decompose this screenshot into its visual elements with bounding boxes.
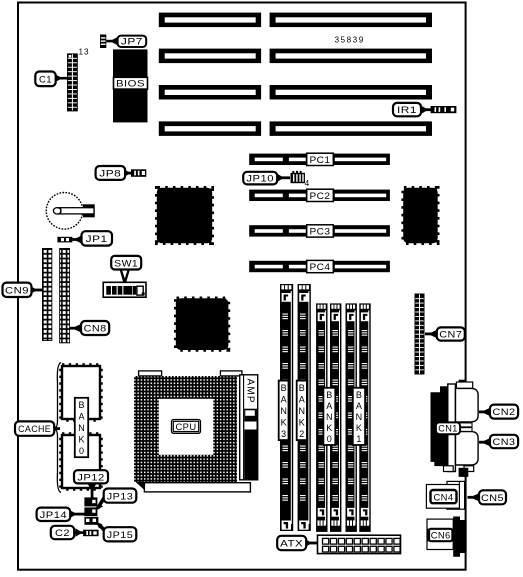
connector CN8 strip <box>59 248 70 343</box>
connector CN9 strip <box>42 248 52 341</box>
spacer tabs between CN2 and CN3 <box>456 423 473 432</box>
label IR1 <box>393 103 432 116</box>
label BIOS <box>114 77 148 89</box>
CN1 bottom tabs <box>444 466 474 477</box>
svg-text:AMP: AMP <box>245 379 256 404</box>
ISA slot 1 left segment <box>159 13 261 28</box>
label CACHE <box>15 421 60 435</box>
svg-text:CN3: CN3 <box>493 437 516 448</box>
label PC2 <box>307 189 334 202</box>
svg-text:CPU: CPU <box>176 422 197 433</box>
svg-text:BIOS: BIOS <box>116 79 145 90</box>
label CN9 <box>3 283 43 297</box>
label CN3 <box>479 435 518 448</box>
svg-text:BANK3: BANK3 <box>280 383 287 439</box>
svg-text:IR1: IR1 <box>397 105 417 116</box>
connector CN2 (port) <box>456 388 479 422</box>
label BANK1 (vertical) <box>353 388 365 445</box>
label BANK2 (vertical) <box>297 381 307 441</box>
svg-text:4: 4 <box>305 179 310 188</box>
SIMM socket BANK1 socket B <box>359 303 370 532</box>
ISA slot 4 left segment <box>159 121 261 135</box>
connector JP1 <box>57 237 72 243</box>
ISA slot 3 left segment <box>159 85 261 100</box>
svg-text:CN1: CN1 <box>438 424 458 435</box>
svg-text:CN7: CN7 <box>439 330 462 341</box>
label BANK0 (cache, vertical) <box>75 398 88 457</box>
svg-text:BANK1: BANK1 <box>356 390 363 444</box>
label JP8 <box>96 166 132 180</box>
label ATX <box>277 536 317 550</box>
label JP12 <box>74 470 108 498</box>
PCI slot PC1 <box>249 154 390 165</box>
svg-text:JP8: JP8 <box>99 169 121 180</box>
connector C2 <box>83 530 99 537</box>
ISA slot 4 right segment <box>270 121 432 135</box>
connector C1 <box>67 53 78 111</box>
EPROM chip BIOS <box>113 49 148 122</box>
label JP14 <box>37 508 85 521</box>
label CN6 <box>429 529 452 542</box>
connector JP8 <box>131 169 146 177</box>
svg-text:PC3: PC3 <box>310 227 331 238</box>
svg-text:JP15: JP15 <box>107 530 134 541</box>
svg-text:35839: 35839 <box>335 36 365 45</box>
svg-text:BANK2: BANK2 <box>299 383 306 439</box>
connector CN6 <box>427 517 467 557</box>
PCI slot PC3 <box>249 225 390 236</box>
ZIF lever bar <box>144 483 250 492</box>
chip U2 <box>403 188 438 243</box>
label JP7 <box>106 36 146 48</box>
label CN2 <box>479 405 518 419</box>
svg-text:CACHE: CACHE <box>18 424 51 435</box>
label CN4 <box>431 490 457 503</box>
label PC1 <box>307 153 334 166</box>
brace (cache group) <box>55 363 61 493</box>
connector IR1 <box>431 106 457 113</box>
label JP1 <box>72 231 112 245</box>
svg-text:CN8: CN8 <box>84 324 107 335</box>
svg-text:PC4: PC4 <box>310 262 331 273</box>
chip U1 <box>157 188 212 243</box>
label PC3 <box>307 225 334 238</box>
connector CN4 <box>426 481 464 509</box>
label BANK0 (vertical) <box>323 388 335 445</box>
chip U3 <box>176 298 229 350</box>
socket tab left <box>139 371 162 376</box>
connector JP7 <box>100 35 106 49</box>
svg-text:CN6: CN6 <box>431 531 451 542</box>
label SW1 <box>111 256 141 282</box>
svg-text:CN2: CN2 <box>493 407 516 418</box>
label PC4 <box>307 260 334 273</box>
label CN7 <box>425 327 465 340</box>
label CN1 <box>436 422 460 434</box>
DIP switch SW1 <box>103 282 146 297</box>
SIMM socket BANK0 socket A <box>316 303 327 532</box>
label CN5 <box>468 490 507 504</box>
PCI slot PC2 <box>249 190 390 201</box>
label CPU <box>172 420 201 434</box>
svg-text:JP1: JP1 <box>86 234 108 245</box>
PCI slot PC4 <box>249 261 390 272</box>
connector CN3 (port) <box>456 432 479 465</box>
svg-text:13: 13 <box>79 48 90 57</box>
label C1 <box>35 72 67 87</box>
svg-text:CN4: CN4 <box>434 492 454 503</box>
battery <box>46 193 95 230</box>
connector CN7 <box>415 294 425 375</box>
ISA slot 3 right segment <box>270 85 432 100</box>
label JP10 <box>243 172 290 185</box>
ISA slot 2 left segment <box>159 49 261 64</box>
CPU socket body <box>134 376 237 482</box>
cache chip A <box>62 366 100 419</box>
svg-text:JP13: JP13 <box>107 491 134 502</box>
svg-text:JP12: JP12 <box>77 472 105 483</box>
SIMM socket BANK2 <box>298 284 311 531</box>
ISA slot 1 right segment <box>270 13 432 28</box>
svg-text:BANK0: BANK0 <box>326 390 333 444</box>
svg-text:PC1: PC1 <box>310 155 331 166</box>
jumper block stack JP12/JP13/JP14/JP15 <box>84 497 98 524</box>
label JP15 <box>97 522 137 541</box>
svg-text:C1: C1 <box>39 74 52 85</box>
label BANK3 (vertical) <box>279 381 289 441</box>
svg-text:JP10: JP10 <box>246 174 274 185</box>
connector ATX <box>318 535 401 553</box>
svg-text:JP14: JP14 <box>40 510 68 521</box>
SIMM socket BANK0 socket B <box>330 303 341 532</box>
SIMM socket BANK1 socket A <box>346 303 357 532</box>
ISA slot 2 right segment <box>270 49 432 64</box>
voltage regulator AMP <box>240 375 258 480</box>
SIMM socket BANK3 <box>280 284 293 531</box>
label JP13 <box>96 489 137 511</box>
label C2 <box>51 526 84 539</box>
socket tab right <box>220 371 242 376</box>
label CN8 <box>70 321 109 335</box>
cache chip B <box>62 435 100 488</box>
svg-text:CN5: CN5 <box>481 493 504 504</box>
svg-text:JP7: JP7 <box>121 37 143 48</box>
svg-text:BANK0: BANK0 <box>78 400 85 456</box>
svg-text:CN9: CN9 <box>5 285 29 296</box>
socket corner notch <box>136 482 145 490</box>
svg-text:C2: C2 <box>55 528 70 539</box>
svg-text:ATX: ATX <box>280 539 303 550</box>
svg-text:PC2: PC2 <box>310 191 331 202</box>
svg-text:SW1: SW1 <box>114 258 138 269</box>
connector CN1 (stacked port block) <box>431 380 473 472</box>
connector JP10 <box>291 171 306 183</box>
